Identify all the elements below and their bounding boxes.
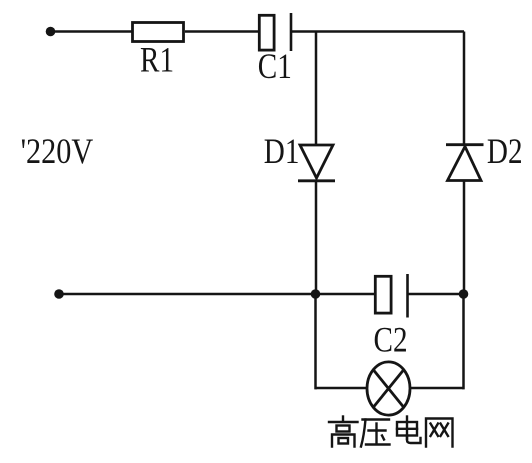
svg-text:R1: R1: [140, 41, 174, 81]
svg-text:C2: C2: [374, 321, 408, 361]
svg-text:D2: D2: [487, 132, 523, 172]
svg-text:'220V: '220V: [21, 132, 94, 172]
svg-text:D1: D1: [264, 132, 300, 172]
svg-text:C1: C1: [258, 47, 292, 87]
